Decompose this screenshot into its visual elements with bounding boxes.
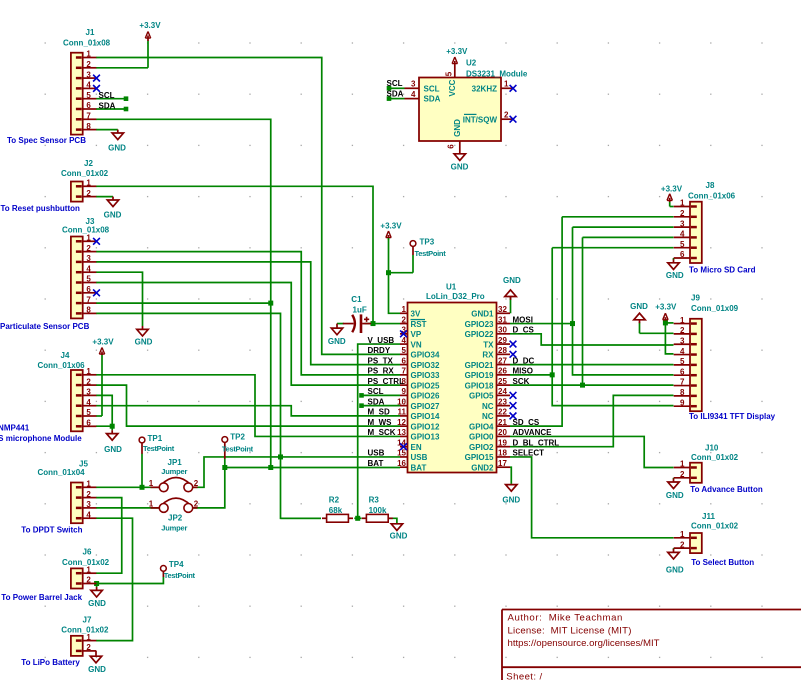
svg-text:Conn_01x02: Conn_01x02 <box>62 558 110 567</box>
svg-text:8: 8 <box>86 122 91 131</box>
svg-text:Conn_01x06: Conn_01x06 <box>688 192 736 201</box>
svg-text:MOSI: MOSI <box>513 315 533 324</box>
svg-text:1uF: 1uF <box>353 306 367 315</box>
svg-text:BAT: BAT <box>368 459 384 468</box>
svg-text:13: 13 <box>397 428 406 437</box>
svg-text:GPIO14: GPIO14 <box>411 412 440 421</box>
svg-text:NC: NC <box>482 412 494 421</box>
svg-text:18: 18 <box>498 449 507 458</box>
svg-text:LoLin_D32_Pro: LoLin_D32_Pro <box>426 292 485 301</box>
svg-text:SDA: SDA <box>387 89 404 98</box>
svg-text:2: 2 <box>86 377 91 386</box>
svg-text:M_SCK: M_SCK <box>368 428 396 437</box>
svg-text:5: 5 <box>86 408 91 417</box>
svg-text:1: 1 <box>680 199 685 208</box>
svg-text:6: 6 <box>86 419 91 428</box>
svg-text:19: 19 <box>498 438 507 447</box>
svg-text:6: 6 <box>680 250 685 259</box>
svg-text:2: 2 <box>86 244 91 253</box>
svg-text:GPIO25: GPIO25 <box>411 381 440 390</box>
svg-text:3: 3 <box>680 336 685 345</box>
svg-text:8: 8 <box>86 306 91 315</box>
svg-text:GPIO18: GPIO18 <box>465 381 494 390</box>
svg-text:GND: GND <box>104 445 122 454</box>
svg-text:R2: R2 <box>329 495 340 504</box>
svg-text:5: 5 <box>86 91 91 100</box>
svg-text:BAT: BAT <box>411 463 427 472</box>
svg-text:GPIO19: GPIO19 <box>465 371 494 380</box>
svg-text:PS_TX: PS_TX <box>368 356 394 365</box>
svg-text:J11: J11 <box>702 512 715 521</box>
svg-text:TP2: TP2 <box>230 432 245 441</box>
svg-text:2: 2 <box>86 60 91 69</box>
svg-text:ADVANCE: ADVANCE <box>513 428 553 437</box>
svg-text:J2: J2 <box>84 159 93 168</box>
svg-text:31: 31 <box>498 315 507 324</box>
svg-text:TP1: TP1 <box>148 434 163 443</box>
svg-text:TX: TX <box>483 340 494 349</box>
svg-text:To Advance Button: To Advance Button <box>690 485 763 494</box>
svg-text:32: 32 <box>498 305 507 314</box>
svg-text:2: 2 <box>680 540 685 549</box>
svg-text:To Select Button: To Select Button <box>691 558 754 567</box>
svg-text:GND: GND <box>502 495 520 504</box>
svg-text:SCK: SCK <box>513 377 530 386</box>
svg-text:Conn_01x04: Conn_01x04 <box>38 468 86 477</box>
svg-text:SCL: SCL <box>99 91 115 100</box>
svg-text:VP: VP <box>411 330 422 339</box>
svg-text:GND: GND <box>88 599 106 608</box>
svg-text:MISO: MISO <box>513 367 533 376</box>
svg-text:Conn_01x02: Conn_01x02 <box>61 626 109 635</box>
svg-text:9: 9 <box>680 398 685 407</box>
svg-text:1: 1 <box>86 480 91 489</box>
svg-text:GPIO12: GPIO12 <box>411 422 440 431</box>
svg-text:TP3: TP3 <box>420 237 435 246</box>
svg-text:GPIO26: GPIO26 <box>411 392 440 401</box>
svg-text:1: 1 <box>86 367 91 376</box>
svg-text:20: 20 <box>498 428 507 437</box>
svg-text:To Spec Sensor PCB: To Spec Sensor PCB <box>7 136 86 145</box>
svg-text:8: 8 <box>680 388 685 397</box>
svg-text:INT/SQW: INT/SQW <box>463 115 498 124</box>
svg-text:23: 23 <box>498 397 507 406</box>
svg-text:4: 4 <box>680 347 685 356</box>
svg-text:2: 2 <box>504 110 509 119</box>
svg-text:GND: GND <box>104 211 122 220</box>
svg-text:2: 2 <box>680 209 685 218</box>
svg-text:To Power Barrel Jack: To Power Barrel Jack <box>1 593 82 602</box>
svg-text:1: 1 <box>680 316 685 325</box>
svg-text:1: 1 <box>149 479 154 488</box>
svg-text:28: 28 <box>498 346 507 355</box>
svg-text:TestPoint: TestPoint <box>415 249 447 258</box>
svg-text:GND: GND <box>666 491 684 500</box>
svg-text:GND: GND <box>390 531 408 540</box>
svg-text:J9: J9 <box>691 294 700 303</box>
svg-text:J7: J7 <box>83 616 92 625</box>
svg-text:6: 6 <box>402 356 407 365</box>
svg-text:4: 4 <box>86 510 91 519</box>
svg-text:RST: RST <box>411 320 427 329</box>
svg-text:3: 3 <box>411 80 416 89</box>
svg-text:2: 2 <box>402 315 407 324</box>
svg-text:PS_RX: PS_RX <box>368 367 395 376</box>
svg-text:Conn_01x08: Conn_01x08 <box>62 226 110 235</box>
svg-text:GPIO13: GPIO13 <box>411 433 440 442</box>
svg-text:V_USB: V_USB <box>368 336 395 345</box>
svg-text:VN: VN <box>411 340 422 349</box>
svg-text:5: 5 <box>402 346 407 355</box>
svg-text:TP4: TP4 <box>169 560 184 569</box>
svg-text:+3.3V: +3.3V <box>446 47 468 56</box>
svg-text:GPIO2: GPIO2 <box>469 443 494 452</box>
svg-text:26: 26 <box>498 367 507 376</box>
svg-text:5: 5 <box>680 357 685 366</box>
svg-text:Conn_01x02: Conn_01x02 <box>691 522 739 531</box>
svg-text:25: 25 <box>498 377 507 386</box>
svg-text:4: 4 <box>86 264 91 273</box>
svg-text:Jumper: Jumper <box>161 467 187 476</box>
svg-text:1: 1 <box>149 500 154 509</box>
svg-text:3: 3 <box>680 219 685 228</box>
svg-text:GND: GND <box>88 665 106 674</box>
svg-text:GPIO4: GPIO4 <box>469 422 494 431</box>
svg-text:GPIO33: GPIO33 <box>411 371 440 380</box>
svg-text:1: 1 <box>504 80 509 89</box>
svg-text:To Micro SD Card: To Micro SD Card <box>689 266 756 275</box>
svg-text:12: 12 <box>397 418 406 427</box>
svg-text:J8: J8 <box>706 181 715 190</box>
svg-text:1: 1 <box>86 179 91 188</box>
svg-text:VCC: VCC <box>448 79 457 96</box>
svg-text:4: 4 <box>680 230 685 239</box>
svg-text:+3.3V: +3.3V <box>380 221 402 230</box>
svg-text:INMP441: INMP441 <box>0 424 30 433</box>
svg-text:To Reset pushbutton: To Reset pushbutton <box>1 204 81 213</box>
svg-text:68k: 68k <box>329 506 343 515</box>
svg-text:SELECT: SELECT <box>513 449 545 458</box>
svg-text:TestPoint: TestPoint <box>143 444 175 453</box>
svg-text:7: 7 <box>86 295 91 304</box>
svg-text:TestPoint: TestPoint <box>164 571 196 580</box>
svg-text:License: MIT License (MIT): License: MIT License (MIT) <box>508 625 632 636</box>
svg-text:27: 27 <box>498 356 507 365</box>
svg-text:1: 1 <box>86 234 91 243</box>
svg-text:JP2: JP2 <box>168 514 183 523</box>
svg-text:GPIO21: GPIO21 <box>465 361 494 370</box>
svg-text:M_SD: M_SD <box>368 408 390 417</box>
svg-text:Particulate Sensor PCB: Particulate Sensor PCB <box>0 322 90 331</box>
svg-text:GND: GND <box>328 337 346 346</box>
svg-text:2: 2 <box>86 189 91 198</box>
svg-text:Conn_01x08: Conn_01x08 <box>63 38 111 47</box>
svg-text:GND: GND <box>630 302 648 311</box>
svg-text:3: 3 <box>86 388 91 397</box>
svg-text:DS3231_Module: DS3231_Module <box>466 70 528 79</box>
svg-text:5: 5 <box>86 275 91 284</box>
svg-text:JP1: JP1 <box>168 458 183 467</box>
svg-text:C1: C1 <box>351 295 362 304</box>
svg-text:U2: U2 <box>466 59 477 68</box>
svg-text:11: 11 <box>398 408 407 417</box>
svg-text:SCL: SCL <box>368 387 384 396</box>
svg-text:GPIO23: GPIO23 <box>465 320 494 329</box>
svg-text:2: 2 <box>194 479 199 488</box>
svg-text:7: 7 <box>680 378 685 387</box>
svg-text:6: 6 <box>447 144 456 149</box>
svg-text:J6: J6 <box>83 548 92 557</box>
svg-text:GND: GND <box>451 163 469 172</box>
svg-text:GPIO27: GPIO27 <box>411 402 440 411</box>
svg-text:+3.3V: +3.3V <box>661 184 683 193</box>
svg-text:GPIO34: GPIO34 <box>411 351 440 360</box>
svg-text:3: 3 <box>86 70 91 79</box>
svg-text:100k: 100k <box>369 506 387 515</box>
svg-text:U1: U1 <box>446 283 457 292</box>
svg-text:2: 2 <box>86 490 91 499</box>
svg-text:32KHZ: 32KHZ <box>472 84 497 93</box>
svg-text:6: 6 <box>680 367 685 376</box>
svg-text:MEMS microphone Module: MEMS microphone Module <box>0 434 82 443</box>
svg-text:To DPDT Switch: To DPDT Switch <box>21 526 82 535</box>
svg-text:GND: GND <box>503 276 521 285</box>
svg-text:J10: J10 <box>705 444 719 453</box>
svg-text:4: 4 <box>86 398 91 407</box>
svg-text:To LiPo Battery: To LiPo Battery <box>21 658 80 667</box>
svg-text:Conn_01x06: Conn_01x06 <box>38 361 86 370</box>
svg-text:GND: GND <box>666 566 684 575</box>
svg-text:DRDY: DRDY <box>368 346 391 355</box>
svg-text:1: 1 <box>402 305 407 314</box>
svg-text:GPIO15: GPIO15 <box>465 453 494 462</box>
svg-text:RX: RX <box>482 351 494 360</box>
svg-text:4: 4 <box>86 81 91 90</box>
svg-text:GPIO22: GPIO22 <box>465 330 494 339</box>
svg-text:SD_CS: SD_CS <box>513 418 540 427</box>
svg-text:6: 6 <box>86 101 91 110</box>
svg-text:9: 9 <box>402 387 407 396</box>
svg-text:SDA: SDA <box>368 397 385 406</box>
svg-text:TestPoint: TestPoint <box>222 444 254 453</box>
svg-text:Conn_01x09: Conn_01x09 <box>691 304 739 313</box>
svg-text:PS_CTRL: PS_CTRL <box>368 377 405 386</box>
svg-text:GND2: GND2 <box>471 463 494 472</box>
svg-text:3: 3 <box>86 254 91 263</box>
svg-text:30: 30 <box>498 326 507 335</box>
svg-text:To ILI9341 TFT Display: To ILI9341 TFT Display <box>689 412 776 421</box>
svg-text:1: 1 <box>86 50 91 59</box>
svg-text:2: 2 <box>680 470 685 479</box>
svg-text:USB: USB <box>368 449 385 458</box>
svg-text:Sheet: /: Sheet: / <box>506 672 542 680</box>
svg-text:10: 10 <box>397 397 406 406</box>
svg-text:16: 16 <box>397 459 406 468</box>
svg-text:GND: GND <box>108 144 126 153</box>
svg-text:29: 29 <box>498 336 507 345</box>
svg-text:SDA: SDA <box>424 95 441 104</box>
svg-text:2: 2 <box>194 500 199 509</box>
svg-text:2: 2 <box>680 326 685 335</box>
svg-text:M_WS: M_WS <box>368 418 393 427</box>
svg-text:D_CS: D_CS <box>513 326 535 335</box>
svg-text:3V: 3V <box>411 310 421 319</box>
svg-text:7: 7 <box>86 112 91 121</box>
svg-text:22: 22 <box>498 408 507 417</box>
svg-text:4: 4 <box>411 90 416 99</box>
svg-text:5: 5 <box>680 240 685 249</box>
svg-text:SDA: SDA <box>99 101 116 110</box>
svg-text:J5: J5 <box>79 459 88 468</box>
svg-text:2: 2 <box>86 643 91 652</box>
svg-text:17: 17 <box>498 459 507 468</box>
svg-text:+3.3V: +3.3V <box>139 21 161 30</box>
svg-text:NC: NC <box>482 402 494 411</box>
svg-text:1: 1 <box>680 460 685 469</box>
svg-text:7: 7 <box>402 367 407 376</box>
svg-text:GND1: GND1 <box>471 310 494 319</box>
svg-text:+3.3V: +3.3V <box>655 302 677 311</box>
svg-text:2: 2 <box>86 576 91 585</box>
svg-text:SCL: SCL <box>387 79 403 88</box>
svg-text:USB: USB <box>411 453 428 462</box>
svg-text:15: 15 <box>397 449 406 458</box>
svg-text:1: 1 <box>680 530 685 539</box>
svg-text:D_DC: D_DC <box>513 356 535 365</box>
svg-text:GND: GND <box>666 271 684 280</box>
svg-text:Conn_01x02: Conn_01x02 <box>61 169 109 178</box>
svg-text:5: 5 <box>445 71 454 76</box>
svg-text:GPIO5: GPIO5 <box>469 392 494 401</box>
svg-text:J1: J1 <box>86 28 95 37</box>
svg-text:D_BL_CTRL: D_BL_CTRL <box>513 438 560 447</box>
svg-text:GPIO32: GPIO32 <box>411 361 440 370</box>
svg-text:+3.3V: +3.3V <box>92 338 114 347</box>
svg-text:3: 3 <box>86 500 91 509</box>
svg-text:21: 21 <box>498 418 507 427</box>
svg-text:GND: GND <box>135 337 153 346</box>
svg-text:J4: J4 <box>61 351 70 360</box>
svg-text:R3: R3 <box>369 495 380 504</box>
svg-text:EN: EN <box>411 443 422 452</box>
svg-text:Jumper: Jumper <box>161 524 187 533</box>
svg-text:6: 6 <box>86 285 91 294</box>
svg-text:GND: GND <box>453 119 462 137</box>
svg-text:SCL: SCL <box>424 84 440 93</box>
svg-text:24: 24 <box>498 387 507 396</box>
svg-text:GPIO0: GPIO0 <box>469 433 494 442</box>
svg-text:https://opensource.org/license: https://opensource.org/licenses/MIT <box>508 638 660 649</box>
svg-text:Author: Mike Teachman: Author: Mike Teachman <box>508 613 623 624</box>
svg-text:Conn_01x02: Conn_01x02 <box>691 453 739 462</box>
